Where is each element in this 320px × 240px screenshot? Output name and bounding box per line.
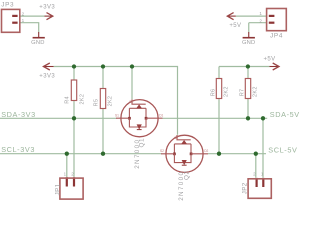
svg-text:SCL-3V3: SCL-3V3 [1, 145, 35, 154]
svg-text:2K2: 2K2 [107, 96, 113, 107]
svg-text:2: 2 [22, 11, 25, 16]
svg-text:Q1: Q1 [138, 138, 145, 148]
svg-text:SDA-3V3: SDA-3V3 [1, 110, 36, 119]
svg-text:1: 1 [259, 11, 262, 16]
svg-text:GND: GND [31, 40, 44, 46]
svg-text:+3V3: +3V3 [39, 74, 55, 80]
svg-text:D2: D2 [204, 149, 208, 153]
svg-text:S2: S2 [160, 149, 164, 153]
svg-text:GND: GND [242, 40, 255, 46]
svg-text:2K2: 2K2 [79, 94, 85, 105]
svg-text:+5V: +5V [229, 23, 241, 29]
svg-text:SDA-5V: SDA-5V [270, 110, 300, 119]
svg-text:JP1: JP1 [54, 183, 61, 195]
svg-text:S1: S1 [115, 113, 119, 117]
svg-text:2K2: 2K2 [252, 86, 258, 97]
svg-text:R7: R7 [239, 89, 245, 97]
svg-text:JP4: JP4 [270, 32, 283, 39]
svg-text:1: 1 [22, 18, 25, 23]
svg-text:R5: R5 [93, 99, 99, 107]
svg-text:Q2: Q2 [183, 170, 190, 180]
svg-text:2K2: 2K2 [223, 86, 229, 97]
svg-text:D1: D1 [159, 113, 163, 117]
svg-text:G2: G2 [174, 136, 178, 140]
svg-text:+3V3: +3V3 [39, 4, 55, 10]
svg-text:2: 2 [259, 18, 262, 23]
svg-text:JP3: JP3 [1, 2, 14, 9]
svg-text:G1: G1 [129, 100, 133, 104]
svg-text:SCL-5V: SCL-5V [268, 145, 297, 154]
svg-text:+5V: +5V [263, 56, 275, 62]
svg-text:R4: R4 [64, 96, 70, 104]
svg-text:R6: R6 [210, 89, 216, 97]
svg-text:JP2: JP2 [241, 182, 248, 194]
